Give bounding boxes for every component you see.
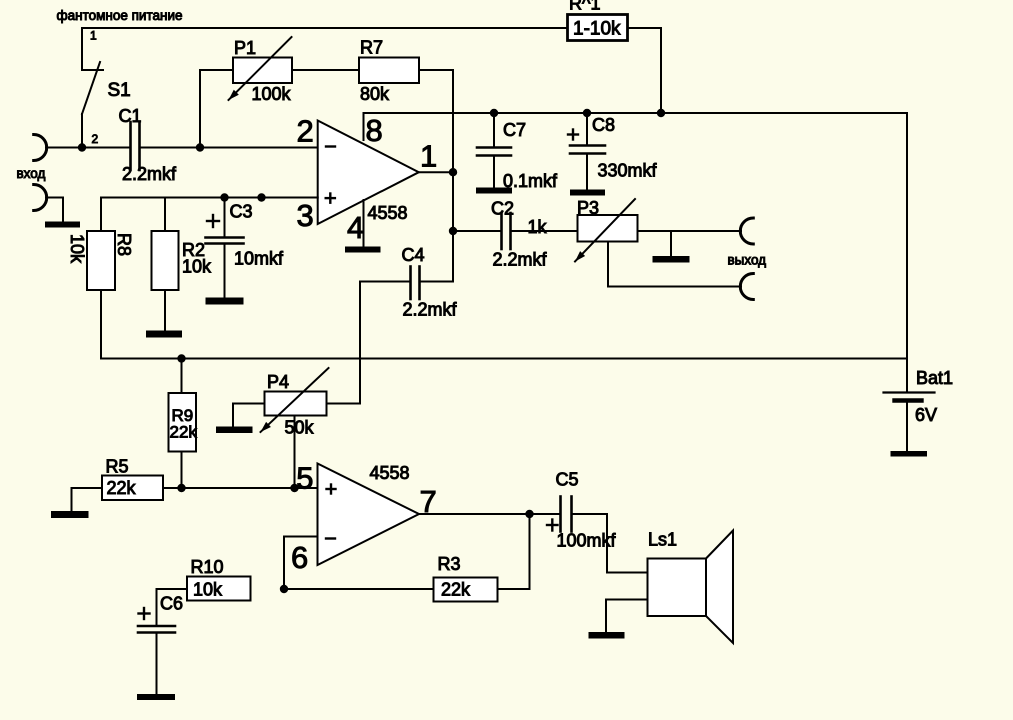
svg-text:4558: 4558: [368, 203, 408, 223]
svg-text:4: 4: [347, 210, 364, 245]
svg-text:22k: 22k: [441, 580, 471, 600]
svg-text:2: 2: [297, 114, 314, 149]
svg-text:C2: C2: [491, 199, 514, 219]
svg-text:C4: C4: [402, 245, 425, 265]
svg-text:вход: вход: [17, 166, 46, 181]
svg-text:C8: C8: [592, 115, 615, 135]
svg-text:1-10k: 1-10k: [573, 19, 621, 40]
svg-text:Ls1: Ls1: [648, 530, 677, 550]
svg-text:2.2mkf: 2.2mkf: [122, 164, 177, 184]
svg-text:R3: R3: [438, 554, 461, 574]
svg-text:P1: P1: [234, 38, 256, 58]
svg-text:5: 5: [296, 460, 313, 495]
svg-text:0.1mkf: 0.1mkf: [503, 171, 558, 191]
svg-text:10k: 10k: [182, 257, 212, 277]
svg-text:C5: C5: [556, 470, 579, 490]
svg-text:10k: 10k: [193, 580, 223, 600]
svg-text:C3: C3: [230, 202, 253, 222]
svg-text:6V: 6V: [915, 405, 937, 425]
svg-text:R^1: R^1: [569, 0, 600, 14]
svg-text:фантомное питание: фантомное питание: [57, 8, 183, 23]
svg-text:R8: R8: [114, 233, 134, 256]
svg-text:S1: S1: [108, 80, 131, 101]
svg-text:80k: 80k: [360, 84, 390, 104]
svg-text:7: 7: [420, 484, 437, 519]
svg-text:R7: R7: [360, 38, 383, 58]
svg-text:4558: 4558: [370, 463, 410, 483]
svg-text:C7: C7: [503, 120, 526, 140]
svg-text:1: 1: [90, 29, 97, 43]
svg-text:100k: 100k: [252, 84, 292, 104]
svg-text:1k: 1k: [528, 217, 548, 237]
svg-text:2: 2: [92, 132, 99, 146]
svg-text:6: 6: [291, 540, 308, 575]
svg-text:выход: выход: [728, 253, 767, 268]
svg-text:P4: P4: [267, 372, 289, 392]
svg-text:R5: R5: [106, 457, 129, 477]
svg-text:Bat1: Bat1: [916, 368, 953, 388]
svg-text:22k: 22k: [170, 423, 198, 442]
svg-text:C1: C1: [119, 106, 142, 126]
svg-text:22k: 22k: [107, 478, 137, 498]
svg-text:50k: 50k: [285, 418, 315, 438]
svg-text:C6: C6: [160, 594, 183, 614]
svg-text:R10: R10: [191, 557, 224, 577]
svg-text:330mkf: 330mkf: [598, 161, 658, 181]
svg-text:100mkf: 100mkf: [557, 531, 617, 551]
svg-text:2.2mkf: 2.2mkf: [493, 250, 548, 270]
svg-text:10mkf: 10mkf: [234, 249, 284, 269]
svg-text:8: 8: [366, 113, 383, 148]
svg-text:10k: 10k: [67, 234, 87, 264]
svg-text:3: 3: [297, 198, 314, 233]
svg-text:P3: P3: [577, 198, 599, 218]
svg-text:2.2mkf: 2.2mkf: [403, 300, 458, 320]
svg-text:1: 1: [420, 139, 437, 174]
